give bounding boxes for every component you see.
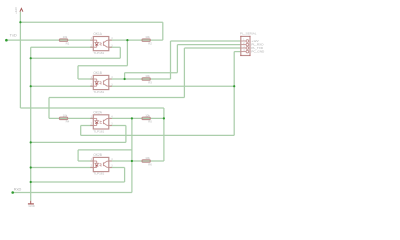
wire cascade1 drop from OK1 collector xyxy=(126,40,128,66)
wire RXD tap horizontal xyxy=(125,72,178,74)
resistor R1 xyxy=(59,35,69,45)
wire PC_GND vertical xyxy=(233,52,235,136)
wire RxD row xyxy=(13,192,132,194)
svg-text:OK2A: OK2A xyxy=(93,111,102,115)
svg-text:TLP181: TLP181 xyxy=(93,129,104,133)
wire +12V lower horizontal xyxy=(20,107,164,109)
svg-text:10k: 10k xyxy=(63,35,68,39)
junction GND rail OK3 emitter xyxy=(30,141,32,143)
svg-text:RxD: RxD xyxy=(14,186,22,191)
svg-text:R4: R4 xyxy=(66,120,70,124)
optocoupler OK2B xyxy=(90,153,113,175)
junction OK2 collector xyxy=(124,78,126,80)
resistor R4 xyxy=(59,113,69,123)
svg-text:OK1B: OK1B xyxy=(93,71,102,75)
wire +12V drop to R5 R6 outputs xyxy=(163,108,165,161)
node TxD stub xyxy=(5,39,8,42)
optocoupler OK2A xyxy=(90,111,113,134)
svg-text:TxD: TxD xyxy=(10,33,17,38)
svg-text:R1: R1 xyxy=(66,41,70,45)
wire OK2 cathode emitter row xyxy=(31,85,235,87)
wire OK1 emitter drop xyxy=(119,47,121,58)
wire OK3 emitter drop xyxy=(125,126,127,143)
svg-text:10k: 10k xyxy=(145,156,150,160)
wire cascade2 left vertical xyxy=(77,150,79,161)
wire cascade1 left vertical xyxy=(77,66,79,79)
wire riser to connector pin1 xyxy=(170,41,172,79)
junction GND rail OK2 cathode xyxy=(30,85,32,87)
wire GND rail vertical xyxy=(30,47,32,201)
svg-text:OK2B: OK2B xyxy=(93,153,102,157)
connector PL_SERIAL xyxy=(240,31,265,56)
pin 1 pad xyxy=(241,40,246,42)
wire OK3 cathode drop xyxy=(80,126,82,136)
svg-text:R3: R3 xyxy=(148,80,152,84)
supply +12V symbol xyxy=(14,7,23,14)
wire OK1 emitter return xyxy=(31,57,121,59)
junction +12V R5 output xyxy=(163,117,165,119)
wire OK4 cathode row xyxy=(31,167,125,169)
resistor R3 xyxy=(142,74,152,84)
wire PC_GND return row xyxy=(81,134,235,136)
resistor R2 xyxy=(142,35,152,45)
junction GND rail OK4 emitter xyxy=(30,181,32,183)
wire OK4 emitter return xyxy=(31,181,125,183)
junction GND rail OK4 cathode xyxy=(30,166,32,168)
svg-text:10k: 10k xyxy=(145,35,150,39)
wire drop to OK3 input xyxy=(48,98,50,119)
wire OK4 collector row xyxy=(78,160,164,162)
junction GND rail OK1 emitter xyxy=(30,57,32,59)
wire OK4 emitter drop xyxy=(124,168,126,183)
wire cascade2 horizontal xyxy=(78,149,132,151)
svg-text:TLP181: TLP181 xyxy=(93,90,104,94)
resistor R6 xyxy=(142,156,152,166)
svg-text:OK1A: OK1A xyxy=(93,32,102,36)
svg-text:PC_GND: PC_GND xyxy=(251,50,265,54)
svg-text:10k: 10k xyxy=(145,113,150,117)
wire connector pin3 row xyxy=(184,47,240,49)
node RxD stub xyxy=(11,191,14,194)
wire pin3 horizontal west xyxy=(49,97,184,99)
junction PC_GND OK2 emitter xyxy=(233,85,235,87)
svg-text:+12V: +12V xyxy=(14,7,18,14)
wire +12V vertical xyxy=(19,12,21,108)
optocoupler OK1B xyxy=(90,71,113,94)
wire connector pin2 row xyxy=(177,44,240,46)
wire +12V top rail xyxy=(20,21,162,23)
svg-text:10k: 10k xyxy=(145,74,150,78)
wire OK3 cathode stub xyxy=(81,125,126,127)
svg-text:TLP181: TLP181 xyxy=(93,51,104,55)
wire OK3 emitter return xyxy=(31,141,126,143)
wire RXD tap riser xyxy=(124,73,126,79)
wire corner down to R2 output xyxy=(162,22,164,40)
svg-text:PL_SERIAL: PL_SERIAL xyxy=(240,31,257,35)
svg-text:R5: R5 xyxy=(148,120,152,124)
svg-text:TLP181: TLP181 xyxy=(93,171,104,175)
wire riser to connector pin2 xyxy=(176,45,178,73)
junction OK3 collector xyxy=(131,117,133,119)
svg-text:10k: 10k xyxy=(63,113,68,117)
wire OK1 cathode row xyxy=(31,46,121,48)
wire OK3 input row through R4 R5 xyxy=(49,117,164,119)
svg-text:R6: R6 xyxy=(148,162,152,166)
wire cascade2 and RxD vertical xyxy=(131,118,133,192)
junction OK1 collector xyxy=(126,39,128,41)
junction OK4 collector xyxy=(131,160,133,162)
pin 3 pad xyxy=(241,47,246,49)
wire connector pin4 stub xyxy=(234,51,241,53)
svg-text:GND: GND xyxy=(29,204,35,208)
wire riser from connector pin3 xyxy=(183,48,185,98)
wire connector pin1 row xyxy=(171,40,241,42)
wire TxD row through R1 OK1 R2 xyxy=(6,39,162,41)
pin 2 pad xyxy=(241,44,246,46)
junction +12V rail top xyxy=(19,21,21,23)
wire cascade1 top horizontal xyxy=(78,65,127,67)
svg-text:R2: R2 xyxy=(148,41,152,45)
pin 4 pad xyxy=(241,51,246,53)
resistor R5 xyxy=(142,113,152,123)
ground GND symbol xyxy=(28,201,35,208)
optocoupler OK1A xyxy=(90,32,113,55)
wire OK2 collector row xyxy=(78,78,171,80)
